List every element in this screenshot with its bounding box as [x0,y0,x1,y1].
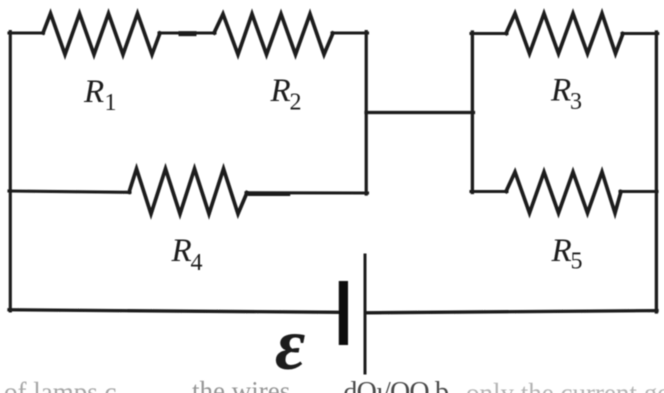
wire: right box top lead to R3 [471,32,507,35]
svg-text:ε: ε [275,304,305,386]
resistor R5 [506,172,621,213]
wire: middle row left lead to R4 [9,191,130,192]
svg-text:the wires: the wires [192,376,290,393]
svg-text:1: 1 [105,90,117,116]
resistor R2 [214,14,333,55]
label R4 [171,233,203,276]
wire: R4 to node vertical [246,191,368,194]
wire: dark thick dash artifact on R1-R2 wire [181,31,194,36]
svg-text:R: R [83,74,104,110]
svg-text:R: R [270,73,291,109]
wire: node vertical at x=366 (junction of R2 and R4 rows) [365,32,368,194]
wire: middle connector between node and right box [366,111,474,114]
svg-text:of lamps c: of lamps c [4,377,116,393]
svg-text:R: R [171,233,192,269]
wire: R5 left lead [471,190,507,193]
wire: bottom-left rail from left vertical to battery [9,310,340,313]
wire: R3 to top-right corner [622,32,658,35]
svg-text:2: 2 [290,90,302,116]
wire: R5 right lead [620,190,657,193]
svg-text:, dOı/OO b: , dOı/OO b [331,377,448,393]
wire: dark thick dash artifact on R4-node wire [250,192,288,196]
battery EMF source: short thick negative plate [339,281,348,345]
label R3 [550,73,582,116]
label R5 [551,233,583,275]
svg-text:5: 5 [571,249,583,275]
svg-text:only the current goo: only the current goo [466,378,664,393]
label R1 [83,74,117,116]
resistor R4 [129,169,247,214]
wire: between R1 and R2 [159,31,215,34]
svg-text:4: 4 [191,250,203,276]
wire: right vertical (x=656, top rail to bottom rail) [655,32,658,312]
svg-text:R: R [550,73,571,109]
wire: right box left vertical [471,32,474,193]
battery EMF source: long thin positive plate [364,255,367,373]
wire: top-left lead to R1 [9,31,44,34]
label R2 [270,73,302,116]
wire: R2 to top-right node corner [332,31,368,34]
wire: left vertical (x=10, top rail to bottom rail) [9,32,12,311]
svg-text:3: 3 [570,89,582,115]
resistor R3 [506,14,623,54]
svg-text:R: R [551,233,572,269]
wire: bottom-right rail from battery to right vertical [366,311,657,313]
resistor R1 [43,14,160,55]
